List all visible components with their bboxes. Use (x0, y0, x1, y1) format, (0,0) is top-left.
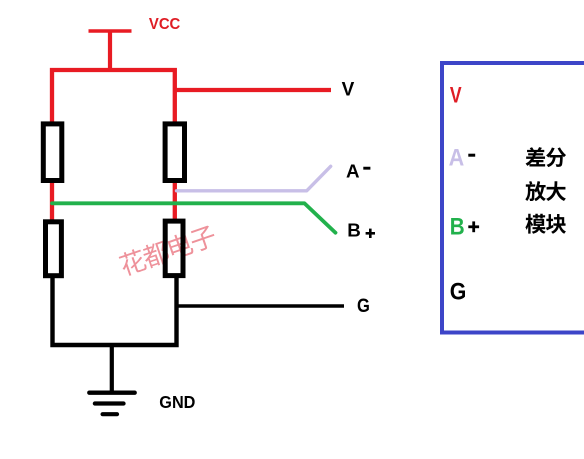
svg-text:B: B (450, 213, 465, 240)
svg-text:A: A (346, 161, 360, 182)
svg-text:VCC: VCC (149, 15, 180, 33)
svg-text:GND: GND (159, 392, 195, 412)
svg-text:B: B (347, 219, 361, 240)
svg-text:G: G (357, 295, 370, 317)
svg-text:V: V (342, 79, 355, 100)
svg-text:A: A (449, 143, 465, 170)
svg-text:V: V (450, 84, 462, 108)
svg-text:G: G (450, 277, 467, 305)
